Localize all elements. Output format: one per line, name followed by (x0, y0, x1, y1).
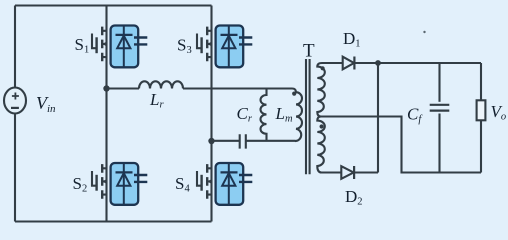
transistor S3 (197, 26, 252, 68)
wire secondary top to D1 (322, 62, 343, 64)
inductor Lr (139, 81, 183, 88)
wire Vo bottom (480, 120, 482, 172)
primary polarity dot (292, 92, 296, 96)
wire D1 to output top rail (354, 62, 481, 64)
wire D2 cathode to link (354, 171, 378, 173)
voltage source Vin (4, 88, 26, 114)
wire left input lower (14, 113, 16, 221)
rectifier junction dot (375, 60, 381, 66)
node B junction dot (208, 138, 214, 144)
transformer core (306, 59, 310, 174)
transformer primary winding (292, 89, 302, 141)
capacitor Cf (430, 105, 450, 111)
wire bottom rail (15, 220, 212, 222)
wire Lr to transformer primary (183, 87, 292, 89)
svg-text:T: T (303, 41, 315, 62)
diode D1 (343, 57, 354, 70)
transistor S4 (197, 163, 252, 205)
wire cathode link D1-D2 (377, 63, 379, 173)
wire center tap to output bottom rail (320, 117, 481, 173)
load Vo (477, 100, 486, 120)
transformer secondary lower winding (317, 117, 325, 173)
inductor Lm (261, 89, 267, 141)
wire node A to Lr (107, 87, 140, 89)
dust speck artifact (423, 31, 425, 33)
transformer secondary upper winding (317, 63, 324, 117)
wire left input upper (14, 6, 16, 88)
capacitor Cr (240, 134, 246, 148)
wire Vo top (480, 63, 482, 100)
transistor S2 (92, 163, 147, 205)
wire Cr to primary bottom (246, 140, 292, 142)
wire Cf top branch (438, 63, 440, 102)
node A junction dot (103, 85, 109, 91)
wire secondary bottom to D2 (320, 171, 341, 173)
diode D2 (341, 166, 353, 179)
wire right bridge leg (210, 6, 212, 222)
secondary lower polarity dot (320, 124, 324, 128)
wire Cf bottom branch (438, 114, 440, 173)
wire top rail (15, 4, 212, 6)
wire left bridge leg (105, 6, 107, 222)
wire Cr to node B (212, 140, 240, 142)
secondary upper polarity dot (321, 66, 325, 70)
transistor S1 (92, 26, 147, 68)
